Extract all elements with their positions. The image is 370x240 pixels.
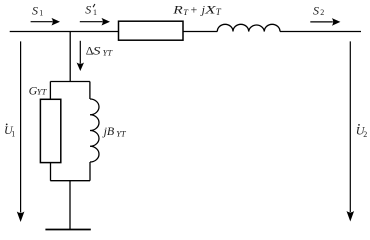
arrowhead S2 <box>332 18 341 26</box>
label S2 <box>313 3 324 17</box>
svg-text:YT: YT <box>103 48 114 58</box>
arrow U2 <box>349 41 351 212</box>
label jBYT <box>102 124 127 138</box>
svg-text:1: 1 <box>93 8 97 17</box>
label U1 <box>4 123 15 139</box>
svg-text:1: 1 <box>11 130 15 139</box>
wire stub to GYT box <box>49 82 51 100</box>
svg-text:+: + <box>191 3 198 17</box>
wire stub to BYT coil <box>89 82 91 100</box>
label RT+jXT <box>172 3 222 18</box>
arrow U1 <box>20 41 22 212</box>
label dSYT <box>86 43 114 57</box>
label GYT <box>29 83 48 97</box>
arrowhead S1 <box>52 18 61 26</box>
wire shunt top bar <box>50 81 90 83</box>
arrowhead U1 <box>17 212 25 223</box>
wire stub below BYT coil <box>89 162 91 181</box>
inductor XT coil <box>217 24 280 31</box>
svg-text:X: X <box>204 3 217 17</box>
arrowhead dSYT <box>77 63 84 72</box>
svg-text:T: T <box>183 7 189 17</box>
svg-text:R: R <box>172 3 184 17</box>
svg-text:2: 2 <box>320 8 324 17</box>
svg-text:S: S <box>313 3 319 17</box>
svg-text:S: S <box>32 3 38 17</box>
arrow S1prime <box>80 21 103 23</box>
wire shunt bottom bar <box>50 180 90 182</box>
svg-text:YT: YT <box>37 87 48 97</box>
label S1 <box>32 3 43 17</box>
svg-text:YT: YT <box>116 128 127 138</box>
svg-text:S: S <box>85 3 91 17</box>
arrow dSYT <box>79 41 81 64</box>
arrowhead S1prime <box>102 18 111 26</box>
svg-text:T: T <box>216 7 222 17</box>
resistor GYT box <box>40 99 60 162</box>
arrow S2 <box>310 21 333 23</box>
label U2 <box>356 123 368 139</box>
label S1prime <box>85 3 97 17</box>
arrow S1 <box>31 21 53 23</box>
wire shunt stem top <box>69 32 71 82</box>
wire between resistor and inductor <box>183 31 217 33</box>
wire top-left segment <box>10 31 119 33</box>
arrowhead U2 <box>347 211 355 222</box>
inductor BYT coil <box>90 99 99 162</box>
svg-text:1: 1 <box>39 9 43 18</box>
svg-text:2: 2 <box>363 130 367 139</box>
wire stub below GYT box <box>50 163 52 181</box>
wire top-right segment <box>280 31 361 33</box>
svg-text:jB: jB <box>102 124 115 138</box>
svg-text:S: S <box>93 43 101 57</box>
ground <box>45 229 90 231</box>
wire shunt stem bottom <box>69 181 71 230</box>
resistor RT box <box>119 21 184 40</box>
